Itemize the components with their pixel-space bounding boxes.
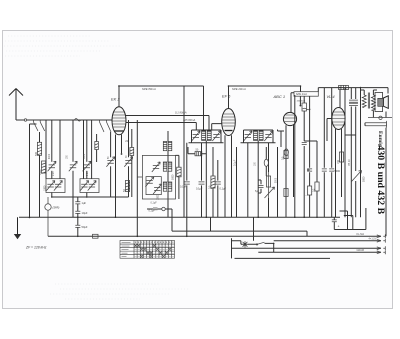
- wire RF pair b2: [91, 120, 93, 179]
- wire det v277: [277, 147, 279, 217]
- resistor R 1000 a: [42, 161, 46, 174]
- output transformer core: [368, 93, 369, 109]
- bottom line: [235, 257, 331, 259]
- wire av v2: [268, 143, 270, 172]
- supply label box: [294, 92, 318, 97]
- wire ps v355 low: [355, 135, 357, 217]
- mains wire b: [265, 243, 274, 252]
- svg-text:Eumig: Eumig: [377, 131, 383, 147]
- volume potentiometer: [265, 172, 275, 198]
- wire VL4 cathode: [336, 129, 342, 217]
- svg-text:150: 150: [337, 159, 340, 164]
- svg-text:0,1µF: 0,1µF: [196, 188, 203, 191]
- resistor VL4 cathode: [339, 152, 343, 162]
- svg-text:5µF: 5µF: [255, 191, 260, 193]
- speaker terminal a: [365, 121, 387, 125]
- resistor screen dropper: [130, 148, 134, 156]
- wire AF v 294: [294, 95, 296, 217]
- capacitor AF a: [307, 169, 312, 171]
- resistor R 1000 b: [125, 181, 129, 192]
- wire RF v6: [128, 120, 130, 157]
- trimmer IFT1 right: [212, 131, 220, 141]
- svg-text:+: +: [338, 225, 340, 229]
- ground arrow: [14, 217, 21, 239]
- tube ABC1: [283, 112, 296, 125]
- trimmer IFT2 right: [264, 131, 272, 141]
- wire heater drop: [253, 217, 255, 241]
- wire RF v7: [136, 120, 138, 236]
- terminal arrow 4x15V: [377, 239, 386, 243]
- resistor AF d: [315, 182, 319, 191]
- svg-text:EF 5: EF 5: [222, 94, 231, 99]
- IF transformer 1 coils: [202, 131, 212, 141]
- capacitor ps b: [353, 100, 358, 102]
- screen rail EK2: [126, 116, 209, 131]
- wire AVC branch left: [30, 124, 37, 217]
- wire RF v3: [72, 120, 74, 162]
- wire AF v 317: [316, 141, 318, 217]
- terminal line 4x15V: [274, 240, 381, 242]
- wire av v1: [247, 143, 249, 217]
- resistor R 500: [37, 142, 41, 155]
- capacitor coupling 50: [302, 142, 307, 144]
- wire EF5 coupling: [236, 147, 238, 217]
- wire EF5 stage boundary: [183, 86, 185, 217]
- svg-text:5000: 5000: [276, 177, 278, 183]
- wire osc feed: [167, 131, 169, 142]
- svg-text:KL.MA: KL.MA: [357, 233, 365, 236]
- wire RF v4 lower: [86, 171, 88, 179]
- band switch S1b: [100, 120, 112, 132]
- wire EF5 cathode leads: [225, 135, 232, 217]
- wire VL4 anode: [339, 89, 341, 107]
- wire det v1: [186, 143, 188, 237]
- resistor det oval: [264, 159, 268, 166]
- trimmer L2b: [88, 181, 96, 191]
- capacitor AF b: [322, 169, 327, 171]
- wire det v3: [212, 147, 214, 217]
- wire ps link: [351, 134, 355, 136]
- oscillator inner box: [146, 177, 161, 195]
- svg-text:(SPR): (SPR): [53, 207, 60, 210]
- svg-text:430 B und 432 B: 430 B und 432 B: [375, 146, 386, 215]
- wire RF pair a2: [59, 120, 61, 179]
- trimmer IFT1 left: [192, 131, 200, 141]
- fuse box: [93, 234, 99, 238]
- wire EK2 cathode leads: [116, 135, 122, 218]
- coil box L1: [46, 179, 65, 193]
- resistor AF grid leak: [284, 151, 288, 159]
- wire det v2: [201, 143, 203, 217]
- terminal line GRAM: [258, 251, 381, 253]
- terminal line aux: [232, 247, 381, 249]
- AVC rail EK2: [126, 123, 196, 130]
- osc bottom cap: [153, 208, 158, 210]
- wire sub v210: [210, 217, 212, 231]
- wire ps v355: [355, 88, 357, 135]
- chassis bus: [19, 216, 340, 218]
- gramophone jack: [45, 197, 51, 236]
- output transformer secondary: [371, 95, 375, 111]
- wire osc col: [167, 151, 169, 218]
- terminal arrow aux: [377, 246, 386, 250]
- svg-text:SPE 80mA: SPE 80mA: [142, 87, 156, 91]
- AF feed dot: [300, 105, 302, 107]
- wire IFT1 drop right: [220, 141, 222, 143]
- IFT2 frame: [241, 130, 276, 143]
- wire RF v2: [51, 120, 53, 162]
- tube EK2: [112, 107, 126, 135]
- wire osc resistor: [176, 155, 179, 199]
- anode rail right: [318, 88, 388, 92]
- speaker terminal b: [365, 124, 387, 128]
- wire IFT2 drops: [244, 141, 274, 218]
- wire IFT1 drop left: [191, 141, 193, 143]
- resistor osc: [177, 167, 181, 177]
- loudspeaker: [375, 93, 388, 112]
- wire AF link: [304, 141, 317, 170]
- resistor det oval2: [284, 149, 288, 156]
- wire jog 1: [340, 211, 348, 230]
- trimmer C2: [69, 161, 77, 171]
- svg-text:1000: 1000: [39, 169, 42, 175]
- svg-text:100 2mA: 100 2mA: [297, 100, 306, 103]
- wire AF v 309 low: [309, 195, 311, 217]
- wire ps v351 low: [350, 135, 352, 217]
- tone pot: [352, 171, 362, 182]
- wire jog 2: [344, 216, 353, 230]
- wire RF v3 lower: [72, 171, 74, 217]
- wire RF v4: [86, 120, 88, 162]
- resistor 50 series: [195, 152, 202, 156]
- wire grid line to EK2: [98, 119, 112, 121]
- oscillator coil T3: [163, 182, 172, 191]
- svg-text:0,1 80mA: 0,1 80mA: [175, 111, 187, 115]
- svg-text:4000: 4000: [49, 153, 51, 159]
- capacitor 0,1uF b: [199, 182, 205, 184]
- IFT1 frame: [189, 130, 224, 143]
- wire ABC1 top feed: [291, 93, 294, 113]
- band switch S1a: [34, 120, 45, 131]
- trimmer L1b: [54, 181, 62, 191]
- svg-text:5000: 5000: [363, 176, 366, 182]
- svg-text:2-20: 2-20: [87, 171, 89, 176]
- wire RF v5 lower: [110, 166, 112, 197]
- trimmer L1a: [46, 181, 54, 191]
- tube EF5: [222, 109, 236, 136]
- resistor det: [211, 176, 215, 189]
- svg-text:0,1µF: 0,1µF: [234, 159, 237, 166]
- wire RF pair b: [83, 120, 85, 179]
- trimmer C5: [124, 157, 132, 167]
- svg-text:0,1µF: 0,1µF: [151, 202, 158, 205]
- oscillator coil T2: [163, 162, 172, 171]
- svg-text:1µF: 1µF: [82, 201, 87, 205]
- svg-text:4×1,5V: 4×1,5V: [369, 238, 377, 241]
- capacitor ps a: [349, 100, 354, 102]
- wire RF v1 lower: [39, 155, 41, 217]
- wire osc left: [137, 176, 142, 178]
- wire RF v6 lower: [128, 166, 130, 197]
- wire IFT1 to bus: [205, 143, 207, 217]
- trimmer osc c: [153, 184, 161, 194]
- antenna: [9, 89, 23, 121]
- wire switch branch: [96, 134, 98, 162]
- wire RF v1: [39, 132, 41, 142]
- svg-text:500: 500: [35, 151, 38, 156]
- resistor block VPRS on rail: [339, 85, 349, 89]
- trimmer C3: [83, 161, 91, 171]
- cathode stub dot: [121, 153, 123, 155]
- capacitor 10uF: [75, 211, 80, 213]
- IF transformer 2 coils: [254, 131, 264, 141]
- mains frame: [232, 238, 241, 258]
- osc bottom circle: [162, 207, 165, 210]
- svg-text:1000: 1000: [157, 194, 160, 200]
- wire rail to speaker: [387, 88, 389, 94]
- wire electrolytic: [333, 217, 335, 229]
- wire det v4: [217, 160, 219, 217]
- capacitor 50uF: [75, 225, 80, 227]
- wire ps v360: [360, 88, 362, 218]
- svg-text:1000: 1000: [44, 185, 47, 191]
- svg-text:SPE 20mA: SPE 20mA: [232, 87, 246, 91]
- wire osc ground drop: [171, 217, 173, 231]
- wire AF v 304: [303, 96, 305, 141]
- paper show-through texture: [4, 36, 190, 299]
- wire det oval: [265, 147, 267, 176]
- wire RF v2 lower: [51, 171, 53, 179]
- trimmer osc a: [152, 162, 160, 172]
- antenna terminal: [24, 119, 26, 121]
- wire resistor 50 leads: [188, 147, 206, 154]
- svg-text:SPE 2mA: SPE 2mA: [296, 93, 307, 96]
- tube VL4: [332, 108, 345, 130]
- svg-text:PB 10: PB 10: [348, 159, 351, 166]
- svg-text:3000: 3000: [84, 153, 86, 159]
- svg-text:5000: 5000: [172, 174, 175, 180]
- wire det v281: [278, 130, 285, 148]
- svg-text:VL 4: VL 4: [327, 94, 336, 99]
- valve voltage table: [120, 241, 175, 259]
- resistor av: [266, 176, 270, 187]
- output transformer primary: [362, 95, 366, 108]
- wire AF v 331: [331, 88, 333, 218]
- terminal arrow GRAM: [377, 250, 386, 254]
- terminal line KLMA: [48, 235, 381, 237]
- oscillator box: [142, 155, 175, 199]
- svg-text:10µF: 10µF: [82, 211, 88, 215]
- wire EF5 anode: [228, 86, 230, 109]
- trimmer L2a: [80, 181, 88, 191]
- svg-text:ZF = 128 kHz: ZF = 128 kHz: [25, 246, 47, 250]
- mains switch: [256, 242, 264, 245]
- capacitor 0,1uF c: [215, 182, 221, 184]
- capacitor electrolytic AF: [332, 220, 337, 222]
- capacitor AF det: [259, 185, 264, 187]
- wire VL4 cathode R: [341, 155, 343, 165]
- wire OT top leads: [361, 90, 378, 95]
- anode supply rail EK2: [119, 86, 204, 130]
- svg-text:0,1µF: 0,1µF: [180, 186, 187, 189]
- oscillator coil T1: [163, 142, 172, 151]
- wire RF pair a: [45, 120, 47, 179]
- mains wire a: [241, 241, 256, 245]
- phone jack line: [368, 116, 392, 119]
- wire speaker leads: [373, 111, 386, 118]
- coil box L2: [80, 179, 99, 193]
- resistor AF b: [284, 189, 288, 197]
- svg-text:2-20: 2-20: [53, 171, 55, 176]
- svg-text:ABC 1: ABC 1: [273, 94, 286, 99]
- capacitor ps b2: [353, 103, 358, 105]
- svg-text:EK 2: EK 2: [111, 97, 120, 102]
- scanned page frame: [3, 31, 393, 309]
- wire VL4 grid: [327, 119, 332, 142]
- wire AF feed: [299, 96, 301, 105]
- wire right edge drop: [365, 123, 386, 237]
- wire AF v 324: [323, 88, 325, 218]
- sub bus 231: [172, 231, 307, 236]
- dial lamp: [242, 241, 248, 247]
- wire antenna to band switch: [16, 119, 98, 121]
- wire smoothing column: [77, 197, 79, 236]
- antenna coupling squiggle: [75, 119, 81, 122]
- wire EK2 anode riser: [118, 86, 120, 107]
- capacitor 0,1uF a: [184, 182, 190, 184]
- trimmer C1: [48, 161, 56, 171]
- svg-text:125 80mA: 125 80mA: [183, 118, 195, 122]
- wire AF v 309: [309, 96, 311, 186]
- wire EF5 grid: [212, 124, 222, 131]
- wire osc bottom: [147, 209, 172, 217]
- corner box bottom: [334, 208, 366, 230]
- resistor screen ABC1: [302, 103, 306, 111]
- svg-text:50µF: 50µF: [82, 225, 88, 229]
- trimmer C4: [106, 157, 114, 167]
- terminal arrow KLMA: [377, 234, 386, 238]
- wire ABC1 leads: [286, 125, 294, 217]
- wire coil bus: [52, 193, 129, 198]
- capacitor 1uF: [75, 202, 80, 204]
- trimmer IFT2 left: [244, 131, 252, 141]
- capacitor ps a2: [349, 103, 354, 105]
- AF squiggle: [303, 108, 311, 110]
- resistor AF c: [308, 186, 312, 195]
- wire AF v 304 lower: [303, 146, 305, 217]
- wire screen dropper: [131, 129, 133, 197]
- trimmer osc b: [145, 177, 153, 187]
- capacitor 5000: [329, 169, 334, 171]
- wire AF det cap: [258, 180, 261, 193]
- anode rail EF5: [229, 86, 301, 92]
- svg-text:GRAM: GRAM: [357, 249, 365, 252]
- wire ps v351: [350, 88, 352, 135]
- wire ps v345: [345, 88, 351, 218]
- wire av v2 lower: [268, 198, 270, 217]
- resistor switch branch: [95, 142, 99, 150]
- wire RF v5: [110, 132, 112, 157]
